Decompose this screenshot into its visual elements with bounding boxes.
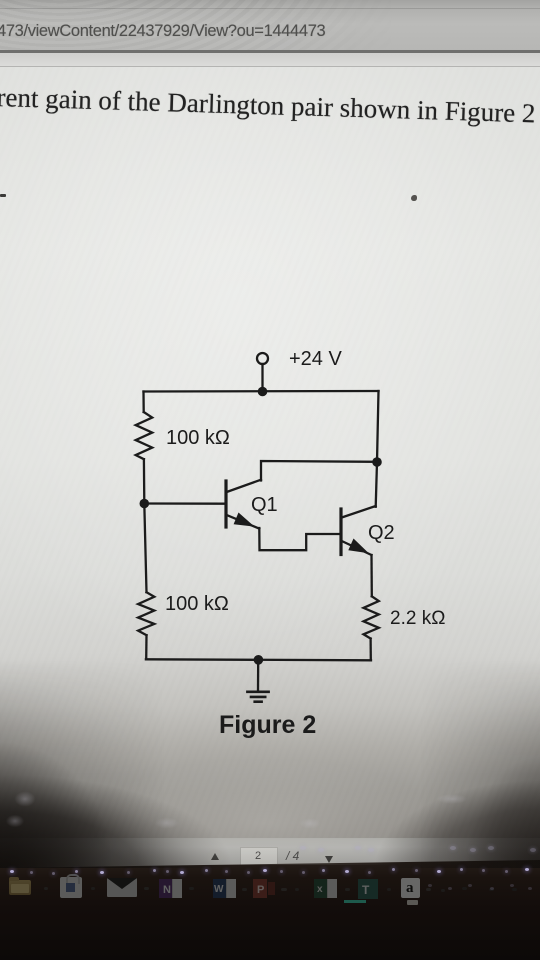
wire right rail upper (377, 391, 379, 462)
wire bottom rail (146, 659, 371, 660)
node ground junction dot (254, 655, 264, 665)
stray dash left edge (0, 194, 6, 197)
wire terminal to rail (261, 364, 263, 391)
node base junction dot (140, 499, 150, 509)
reflection blobs lower-left (10, 788, 40, 810)
wire top rail (144, 390, 379, 393)
left flank shade (0, 660, 300, 868)
onenote N icon (159, 879, 172, 898)
transistor Q1 base bar (224, 481, 227, 527)
icon separator dots (44, 887, 48, 890)
central lower glow (90, 760, 440, 865)
word W icon (213, 879, 226, 898)
excel X icon (314, 879, 327, 898)
node +24V junction dot (258, 387, 268, 397)
Q2 emitter arrowhead (348, 539, 369, 554)
wire Q2 emitter down (370, 555, 373, 596)
url text (0, 22, 325, 41)
faint specks in dark band (428, 884, 432, 887)
nav page box (240, 847, 278, 866)
store bag icon (60, 877, 82, 898)
nav slash 4 (286, 849, 299, 863)
transistor Q2 base bar (339, 509, 342, 555)
screen corner vignette bottom-right (330, 778, 540, 868)
envelope icon (107, 878, 137, 897)
resistor R2 100k zigzag (138, 592, 154, 635)
bar bottom border (0, 50, 540, 53)
browser top chrome (0, 0, 540, 53)
teal underline (344, 900, 366, 903)
terminal +24V circle (257, 353, 268, 364)
powerpoint P icon (253, 879, 267, 898)
bottom nav band (0, 838, 540, 868)
wire ground stem (257, 660, 260, 691)
nav up button (207, 849, 223, 865)
wire right rail Q2 collector (376, 462, 377, 507)
screen corner vignette bottom-left (0, 768, 310, 868)
bottom edge darkening (0, 840, 540, 868)
headline serif text (0, 82, 536, 129)
Q1 collector diagonal (227, 480, 261, 492)
Q1 emitter arrowhead (234, 513, 255, 527)
nav down button (321, 850, 337, 866)
wire base node to Q1 (144, 502, 224, 505)
moire swirl on topbar (0, 0, 400, 53)
wire left rail upper (142, 392, 144, 413)
wire Q1 collector to right rail (261, 461, 377, 481)
a icon (401, 878, 420, 898)
T icon (358, 879, 378, 899)
dark taskbar area (0, 855, 540, 960)
Q1 emitter diagonal with arrow (227, 515, 260, 529)
folder icon (9, 880, 31, 895)
wire left rail lower (145, 635, 148, 659)
Q2 collector diagonal (342, 506, 376, 518)
wire left rail middle (144, 459, 147, 592)
wire Q1 emitter path to Q2 base (259, 528, 339, 550)
ground symbol (247, 690, 268, 693)
node collector junction dot (372, 457, 382, 467)
right flank shade (340, 660, 540, 868)
gray speck under a icon (407, 900, 418, 905)
resistor R1 100k zigzag (136, 412, 153, 459)
led reflection dots (10, 870, 14, 873)
wire R3 to bottom rail (369, 639, 371, 661)
dim reflection dots above edge (300, 846, 306, 850)
led dot row (0, 0, 540, 1)
stray speck (411, 195, 417, 201)
Q2 emitter diagonal with arrow (342, 541, 372, 555)
resistor R3 2.2k zigzag (364, 596, 379, 638)
